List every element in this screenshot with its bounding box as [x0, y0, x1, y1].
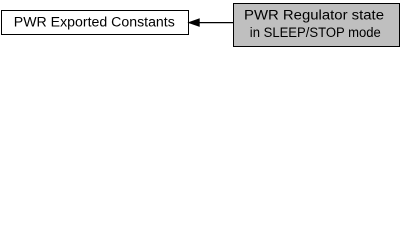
edge arrowhead pointing left	[189, 19, 199, 26]
svg-text:PWR Exported Constants: PWR Exported Constants	[14, 14, 175, 29]
node box: PWR Exported Constants	[2, 11, 189, 35]
edge wire: dependency line	[199, 22, 234, 24]
node box: PWR Regulator state in SLEEP/STOP mode (highlighted grey)	[234, 4, 400, 47]
svg-text:in SLEEP/STOP mode: in SLEEP/STOP mode	[250, 25, 381, 40]
svg-text:PWR Regulator state: PWR Regulator state	[244, 8, 384, 23]
